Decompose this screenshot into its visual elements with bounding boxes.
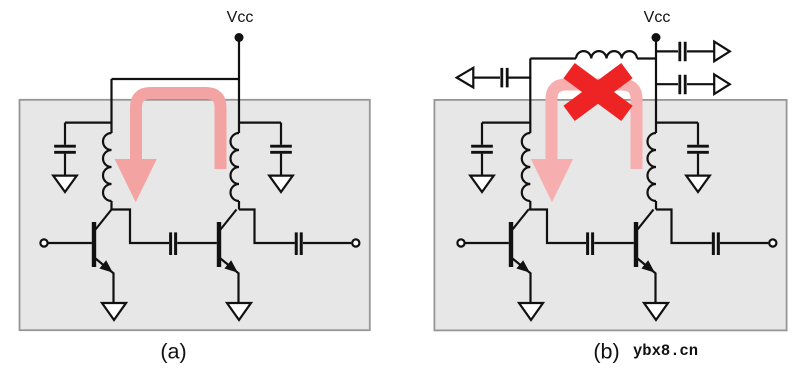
svg-text:Vcc: Vcc xyxy=(227,9,254,26)
svg-text:(a): (a) xyxy=(160,340,186,364)
svg-text:Vcc: Vcc xyxy=(644,9,671,26)
svg-text:(b): (b) xyxy=(593,340,619,364)
svg-text:ybx8.cn: ybx8.cn xyxy=(633,342,698,360)
